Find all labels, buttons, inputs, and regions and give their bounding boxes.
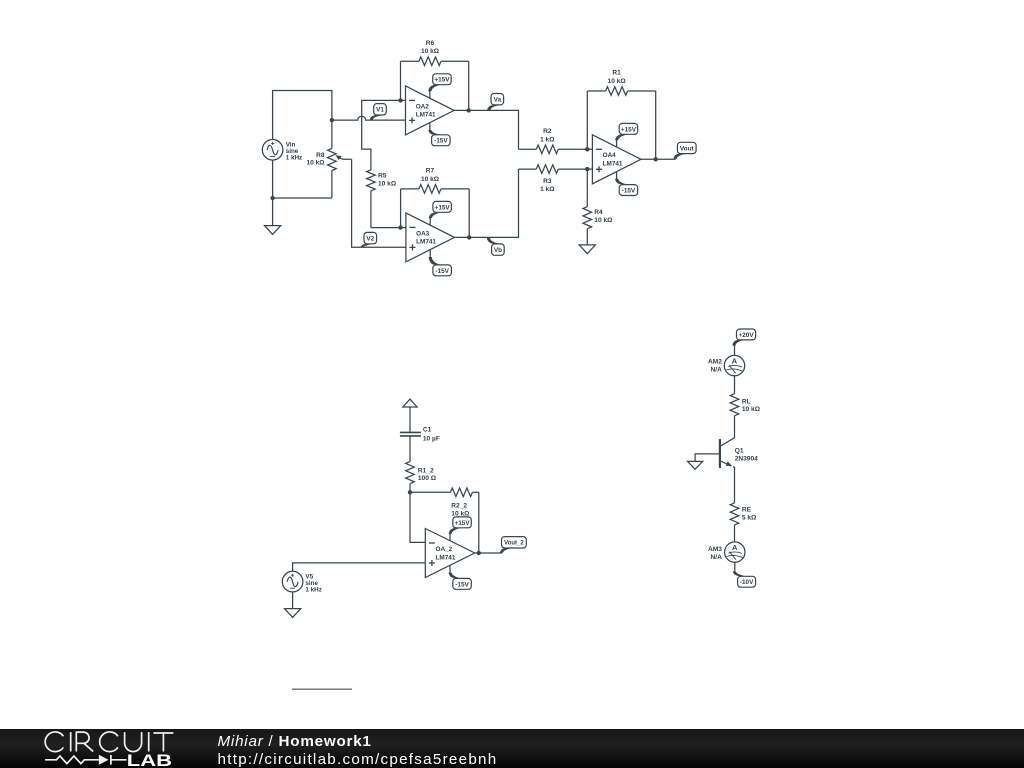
wire Vin bottom rail xyxy=(273,160,332,226)
svg-text:N/A: N/A xyxy=(711,554,723,561)
resistor RL 10 kΩ xyxy=(730,394,761,438)
svg-text:5 kΩ: 5 kΩ xyxy=(742,514,757,521)
node junction OA_2 inverting net xyxy=(408,490,412,494)
svg-text:+15V: +15V xyxy=(454,520,470,527)
wire R7 to OA3 output xyxy=(468,189,470,238)
wire node to OA2 noninverting input (hop over vertical) xyxy=(332,116,406,120)
svg-text:OA2: OA2 xyxy=(416,103,430,110)
CircuitLab logo resistor-diode glyph xyxy=(45,755,126,765)
svg-text:-15V: -15V xyxy=(435,268,449,275)
power pin stub OA3 V+ xyxy=(429,218,431,226)
resistor R2 1 kΩ xyxy=(519,128,593,154)
svg-text:Vout_2: Vout_2 xyxy=(504,541,524,547)
op-amp OA_2 LM741 xyxy=(425,529,474,578)
power pin stub OA4 V- xyxy=(616,171,618,179)
ammeter AM2 (N/A) xyxy=(708,355,745,375)
svg-text:10 kΩ: 10 kΩ xyxy=(742,406,761,413)
svg-text:R8: R8 xyxy=(316,152,325,159)
node junction OA2 inverting xyxy=(398,98,402,102)
ammeter AM3 (N/A) xyxy=(708,542,745,562)
resistor R6 10 kΩ xyxy=(401,40,469,66)
voltage probe V1 xyxy=(370,104,387,120)
wire R2_2 to OA_2 output xyxy=(478,492,480,553)
voltage probe Vb xyxy=(487,238,505,256)
svg-text:RE: RE xyxy=(742,507,752,514)
svg-text:1 kΩ: 1 kΩ xyxy=(540,186,555,193)
resistor R3 1 kΩ xyxy=(519,165,593,193)
node junction OA2 output xyxy=(467,108,471,112)
wire node down to OA_2 inverting input xyxy=(410,492,425,542)
ground at R4 xyxy=(579,245,595,254)
resistor R1_2 100 Ω xyxy=(406,462,437,493)
svg-text:1 kHz: 1 kHz xyxy=(286,155,302,162)
footer url text xyxy=(218,751,498,768)
power net -15V at OA3 xyxy=(429,257,452,276)
wire R8 wiper to OA3 noninverting input xyxy=(352,159,406,247)
svg-text:10 kΩ: 10 kΩ xyxy=(378,180,397,187)
wire Q1 emitter to RE xyxy=(734,467,736,503)
resistor R5 10 kΩ xyxy=(367,158,397,227)
power net +20V xyxy=(732,329,755,346)
svg-text:R5: R5 xyxy=(378,172,387,179)
CircuitLab logo LAB xyxy=(127,751,172,768)
stray horizontal line segment xyxy=(292,688,352,690)
wire R5 to OA3 inverting input xyxy=(371,227,406,229)
voltage probe V2 xyxy=(361,232,377,246)
svg-text:R3: R3 xyxy=(543,178,552,185)
wire R6 to OA2 output xyxy=(468,61,470,110)
power net -15V at OA2 xyxy=(428,130,450,146)
power net +15V at OA4 xyxy=(615,123,638,140)
svg-text:+20V: +20V xyxy=(738,332,754,339)
svg-text:1 kΩ: 1 kΩ xyxy=(540,136,555,143)
footer title text xyxy=(218,733,372,750)
node junction OA4 output xyxy=(654,157,658,161)
power net -15V at OA4 xyxy=(615,179,638,196)
svg-text:RL: RL xyxy=(742,398,751,405)
wire arrow to C1 xyxy=(409,407,411,432)
wire OA_2 output to Vout_2 xyxy=(475,552,502,554)
svg-text:LM741: LM741 xyxy=(436,554,456,561)
svg-text:A: A xyxy=(732,543,738,552)
svg-text:http://circuitlab.com/cpefsa5r: http://circuitlab.com/cpefsa5reebnh xyxy=(218,751,498,768)
wire AM3 to -10V xyxy=(734,562,736,572)
node junction OA3 inverting xyxy=(398,225,402,229)
svg-text:R7: R7 xyxy=(426,168,435,175)
svg-text:OA3: OA3 xyxy=(416,230,430,237)
svg-text:10 kΩ: 10 kΩ xyxy=(421,176,440,183)
voltage probe Vout xyxy=(673,142,696,159)
svg-text:V2: V2 xyxy=(366,236,374,243)
resistor RE 5 kΩ xyxy=(730,503,757,542)
wire OA3 inverting to R7 xyxy=(400,189,402,228)
potentiometer R8 10 kΩ xyxy=(306,120,351,198)
resistor R2_2 10 kΩ xyxy=(410,488,479,517)
svg-text:Vb: Vb xyxy=(494,247,502,254)
ground at V5 xyxy=(285,609,301,618)
wire AM2 to RL xyxy=(734,376,736,394)
power pin stub OA_2 V- xyxy=(449,565,451,573)
node junction OA4 noninverting xyxy=(585,167,589,171)
svg-text:-15V: -15V xyxy=(455,581,469,588)
power pin stub OA2 V+ xyxy=(429,91,431,99)
resistor R4 10 kΩ xyxy=(583,169,613,245)
node junction at R8 top xyxy=(330,118,334,122)
transistor Q1 2N3904 xyxy=(720,438,758,470)
svg-text:Vout: Vout xyxy=(680,145,695,152)
svg-text:R4: R4 xyxy=(594,209,603,216)
svg-text:R2: R2 xyxy=(543,128,552,135)
svg-text:LM741: LM741 xyxy=(416,112,436,119)
svg-text:Va: Va xyxy=(494,97,502,104)
wire V5 bottom to ground xyxy=(292,592,294,609)
voltage source Vin (sine 1 kHz) xyxy=(262,140,302,162)
svg-text:R1_2: R1_2 xyxy=(418,467,434,474)
svg-text:-15V: -15V xyxy=(622,187,636,194)
power net +15V at OA_2 xyxy=(449,517,472,534)
svg-text:R6: R6 xyxy=(426,40,435,47)
svg-text:LM741: LM741 xyxy=(416,239,436,246)
svg-text:R2_2: R2_2 xyxy=(451,502,467,509)
svg-text:N/A: N/A xyxy=(711,366,723,373)
svg-text:+15V: +15V xyxy=(621,126,637,133)
svg-text:10 kΩ: 10 kΩ xyxy=(421,48,440,55)
svg-text:AM3: AM3 xyxy=(708,546,722,553)
svg-text:+15V: +15V xyxy=(434,77,450,84)
wire OA4 inverting to R1 xyxy=(586,91,588,149)
wire Q1 base to ground xyxy=(695,454,720,462)
node junction bottom rail xyxy=(270,196,274,200)
resistor R1 10 kΩ xyxy=(587,70,655,96)
svg-text:R1: R1 xyxy=(612,70,621,77)
voltage probe Va xyxy=(487,94,504,111)
svg-text:A: A xyxy=(732,357,738,366)
svg-text:Mihiar / Homework1: Mihiar / Homework1 xyxy=(218,733,372,750)
node junction OA3 output xyxy=(467,235,471,239)
svg-text:-15V: -15V xyxy=(434,138,448,145)
node junction OA4 inverting xyxy=(585,147,589,151)
svg-text:OA4: OA4 xyxy=(603,152,617,159)
power rail arrow (node) above C1 xyxy=(403,399,417,407)
resistor R7 10 kΩ xyxy=(401,168,470,194)
wire V5 to OA_2 noninverting input xyxy=(293,563,426,571)
svg-text:OA_2: OA_2 xyxy=(436,546,453,553)
svg-text:LAB: LAB xyxy=(127,751,172,768)
node junction OA_2 output xyxy=(477,551,481,555)
svg-text:100 Ω: 100 Ω xyxy=(418,475,437,482)
svg-text:Q1: Q1 xyxy=(735,448,744,455)
power net +15V at OA2 xyxy=(428,74,451,91)
CircuitLab logo wordmark CIRCUIT (hand-drawn thin letters) xyxy=(45,732,173,752)
op-amp OA3 LM741 xyxy=(406,213,455,262)
svg-text:10 µF: 10 µF xyxy=(423,435,440,442)
wire +20V to AM2 xyxy=(734,345,736,355)
svg-text:10 kΩ: 10 kΩ xyxy=(594,217,613,224)
power pin stub OA4 V+ xyxy=(616,140,618,148)
op-amp OA2 LM741 xyxy=(406,86,455,135)
power pin stub OA_2 V+ xyxy=(449,533,451,541)
wire OA2 inverting input to R5 xyxy=(362,100,406,158)
wire R1 to OA4 output xyxy=(655,91,657,159)
power pin stub OA3 V- xyxy=(429,249,431,257)
svg-text:+15V: +15V xyxy=(435,204,451,211)
op-amp OA4 LM741 xyxy=(592,135,641,184)
svg-text:10 kΩ: 10 kΩ xyxy=(608,78,627,85)
svg-text:-10V: -10V xyxy=(740,579,754,586)
power net -10V xyxy=(733,572,756,588)
power net +15V at OA3 xyxy=(429,201,452,218)
svg-text:LM741: LM741 xyxy=(603,161,623,168)
capacitor C1 10 µF xyxy=(400,427,440,443)
wire OA2 output to R2 xyxy=(454,110,518,149)
wire Vin top to R8 top xyxy=(273,91,332,140)
wire OA4 output to Vout xyxy=(641,158,676,160)
svg-text:2N3904: 2N3904 xyxy=(735,455,758,462)
wire OA2 inverting to R6 xyxy=(400,61,402,100)
svg-text:AM2: AM2 xyxy=(708,358,722,365)
power pin stub OA2 V- xyxy=(429,122,431,130)
svg-text:V1: V1 xyxy=(376,107,384,114)
svg-text:10 kΩ: 10 kΩ xyxy=(306,159,325,166)
svg-text:1 kHz: 1 kHz xyxy=(305,587,321,594)
voltage probe Vout_2 xyxy=(500,537,527,553)
wire C1 to R1_2 xyxy=(409,436,411,462)
ground at Vin xyxy=(265,226,281,235)
power net -15V at OA_2 xyxy=(449,573,472,590)
ground at Q1 base xyxy=(688,461,703,469)
wire OA3 output to R3 xyxy=(455,169,519,237)
svg-text:C1: C1 xyxy=(423,427,432,434)
voltage source V5 (sine 1 kHz) xyxy=(282,571,322,593)
